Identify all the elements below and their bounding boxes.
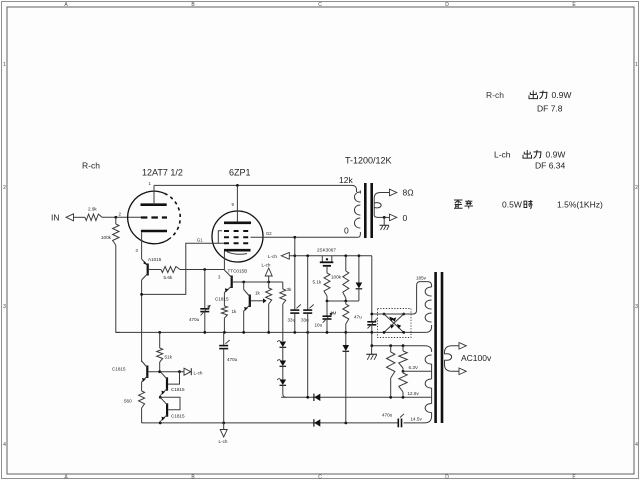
tube V1 cathode xyxy=(136,231,168,259)
resistor R4 1k xyxy=(221,306,237,332)
svg-text:5.6k: 5.6k xyxy=(164,275,173,280)
svg-text:C1815: C1815 xyxy=(215,297,229,302)
note: R-ch output spec text xyxy=(486,90,571,114)
tube V1 grid (dashed) xyxy=(141,216,167,218)
wire: pot wiper arrow to Q3 base xyxy=(251,298,267,303)
svg-text:100k: 100k xyxy=(331,275,342,280)
capacitor C6 470u (series in bottom rail) xyxy=(382,413,404,428)
node grid junction + pin 2 xyxy=(114,212,121,219)
svg-text:560: 560 xyxy=(124,399,132,404)
connector arrow 8 ohm tap xyxy=(381,188,414,198)
resistor R9 heater divider xyxy=(387,346,395,398)
node: 6ZP1 plate tap xyxy=(236,184,239,187)
transformer T1 label T-1200/12K xyxy=(345,156,392,166)
capacitor C2 10u (w/ arrow) xyxy=(315,301,333,332)
potentiometer VR1 1k xyxy=(255,288,272,332)
resistor R1 2.9k xyxy=(85,207,102,221)
transistor Q6 C1815 (diode strapped) xyxy=(160,372,185,398)
svg-text:1k: 1k xyxy=(232,309,238,314)
tube V2 g1/g3 bracket xyxy=(197,231,224,243)
svg-text:0.5W: 0.5W xyxy=(502,200,522,210)
svg-text:D: D xyxy=(445,2,449,8)
svg-text:0.9W: 0.9W xyxy=(552,90,572,100)
wire: Q5 base row xyxy=(148,370,184,373)
svg-text:TTC015B: TTC015B xyxy=(228,269,248,274)
capacitor C1 470u (electrolytic w/ arrow) xyxy=(189,270,211,333)
connector arrow AC neutral xyxy=(459,368,466,375)
wire: Q3 emitter down to rail xyxy=(243,311,245,332)
label 12k primary xyxy=(339,175,353,185)
tube V2 label 6ZP1 xyxy=(229,168,251,178)
label 185v winding xyxy=(416,276,427,281)
svg-text:6.3V: 6.3V xyxy=(409,365,419,370)
capacitor C7 470u L-ch supply xyxy=(219,332,237,423)
wire: source node joining 5.1k/100k/zener xyxy=(326,300,359,303)
svg-text:0.9W: 0.9W xyxy=(546,150,566,160)
transformer T2 core xyxy=(436,272,442,423)
transformer T1 primary winding xyxy=(354,191,360,229)
svg-text:0: 0 xyxy=(403,213,408,223)
node: g2 junction xyxy=(293,236,296,239)
svg-text:G2: G2 xyxy=(266,231,272,236)
wire: Q3 collector up to bias node xyxy=(243,282,245,290)
transformer T2 heater winding xyxy=(425,355,432,423)
svg-text:DF 7.8: DF 7.8 xyxy=(537,104,563,114)
wire: diode stack to 12.6v line xyxy=(283,385,286,397)
wire: Q2 base to bias node xyxy=(232,281,283,284)
wire: 5.6k to 6ZP1 cathode node xyxy=(180,268,224,271)
connector arrow L-ch (left, to g2 node wire) xyxy=(268,252,372,259)
wire: 12.6v tap / bias feed xyxy=(281,391,432,399)
svg-text:L-ch: L-ch xyxy=(219,439,228,444)
svg-text:C: C xyxy=(318,475,322,480)
svg-text:2.9k: 2.9k xyxy=(88,207,97,212)
note: R-ch channel label xyxy=(82,161,100,171)
svg-text:C: C xyxy=(318,2,322,8)
svg-text:0: 0 xyxy=(344,226,349,236)
svg-text:470u: 470u xyxy=(382,413,393,418)
svg-text:4: 4 xyxy=(3,442,6,448)
svg-text:D: D xyxy=(445,475,449,480)
wire: g2 to primary 0 tap xyxy=(251,231,361,237)
transformer T2 HV winding xyxy=(425,287,431,322)
label AC100v xyxy=(461,353,492,363)
wire: g1 lead down-left xyxy=(143,243,219,294)
resistor R5 3k xyxy=(280,282,292,304)
svg-text:4: 4 xyxy=(635,442,638,448)
resistor R13 560 xyxy=(124,382,145,423)
svg-text:3: 3 xyxy=(3,304,6,310)
note: L-ch output spec text xyxy=(494,150,566,171)
capacitor C3 47u xyxy=(354,256,378,333)
svg-text:T-1200/12K: T-1200/12K xyxy=(345,156,392,166)
svg-text:1k: 1k xyxy=(255,291,261,296)
resistor R3 5.6k xyxy=(161,267,180,281)
svg-text:3: 3 xyxy=(635,304,638,310)
svg-text:2: 2 xyxy=(3,185,6,191)
transistor Q7 C1815 (diode strapped) xyxy=(159,396,185,423)
svg-text:A1015: A1015 xyxy=(148,257,162,262)
svg-text:2SK3067: 2SK3067 xyxy=(317,248,336,253)
svg-text:12AT7 1/2: 12AT7 1/2 xyxy=(142,168,183,178)
resistor R8 1M xyxy=(330,301,349,332)
wire: bottom rail 14.5v xyxy=(142,422,425,425)
transformer T2 AC primary winding xyxy=(445,346,460,372)
tube V2 grids (3 dashed rows) xyxy=(224,231,251,243)
svg-text:3k: 3k xyxy=(287,287,293,292)
ground: speaker common chassis xyxy=(380,217,390,230)
label 0 primary bottom xyxy=(344,226,349,236)
svg-text:IN: IN xyxy=(51,213,60,223)
wire: 6.3V tap xyxy=(402,365,432,373)
svg-text:C1815: C1815 xyxy=(171,414,185,419)
transformer T1 core xyxy=(365,183,371,238)
wire: main ground rail xyxy=(116,325,432,332)
diode D1 zener xyxy=(356,256,363,301)
svg-text:1M: 1M xyxy=(330,311,337,316)
resistor R11 heater divider lower xyxy=(399,373,407,397)
svg-text:47u: 47u xyxy=(354,315,362,320)
transistor Q3 C1815 (NPN, mirrored, base to pot wiper) xyxy=(215,290,250,312)
tube V2 cathode + beam plate xyxy=(218,250,251,279)
resistor R6 5.1k xyxy=(313,273,331,301)
svg-text:33u: 33u xyxy=(301,318,309,323)
svg-text:R-ch: R-ch xyxy=(82,161,100,171)
svg-text:DF 6.34: DF 6.34 xyxy=(535,161,566,171)
note: distortion spec text xyxy=(454,200,603,210)
svg-text:12k: 12k xyxy=(339,175,353,185)
bridge rectifier BR1 (dotted outline) xyxy=(378,309,412,338)
resistor R2 100k xyxy=(101,217,119,245)
resistor R10 heater divider upper xyxy=(399,346,407,373)
svg-text:10u: 10u xyxy=(315,323,323,328)
svg-text:470u: 470u xyxy=(189,317,200,322)
svg-text:8Ω: 8Ω xyxy=(403,188,414,198)
svg-text:470u: 470u xyxy=(227,357,238,362)
svg-text:5.1k: 5.1k xyxy=(313,280,322,285)
svg-text:L-ch: L-ch xyxy=(494,150,511,160)
svg-text:12.6v: 12.6v xyxy=(408,391,420,396)
svg-text:6ZP1: 6ZP1 xyxy=(229,168,251,178)
wire: IN to R1 xyxy=(74,216,86,218)
resistor R12 51k xyxy=(157,332,173,371)
svg-text:33u: 33u xyxy=(288,318,296,323)
capacitor C4 33u xyxy=(288,237,301,332)
tube V1 12AT7 triode envelope xyxy=(128,191,181,244)
svg-text:1.5%(1KHz): 1.5%(1KHz) xyxy=(557,200,603,210)
node IN input xyxy=(51,213,74,223)
svg-text:185v: 185v xyxy=(416,276,427,281)
resistor R7 100k xyxy=(331,256,349,301)
svg-text:14.5v: 14.5v xyxy=(411,417,423,422)
svg-text:C1815: C1815 xyxy=(112,367,126,372)
svg-text:AC100v: AC100v xyxy=(461,353,492,363)
label 14.5v xyxy=(411,417,423,422)
svg-text:1: 1 xyxy=(3,62,6,68)
capacitor C5 33u xyxy=(301,256,314,397)
tube V2 6ZP1 envelope xyxy=(212,211,263,262)
wire: heater rail from 47u node xyxy=(370,332,431,352)
svg-text:51k: 51k xyxy=(165,355,173,360)
svg-text:1: 1 xyxy=(635,62,638,68)
wire: Q1 base lead xyxy=(149,269,161,271)
wire: R1 to grid node xyxy=(102,216,141,218)
connector arrow L-ch (down) xyxy=(219,423,228,444)
transformer T1 secondary winding xyxy=(374,193,381,218)
wire: Q2 emitter to R4 xyxy=(223,293,225,307)
wire: bridge + output to HV winding top xyxy=(370,282,431,316)
svg-text:C1815: C1815 xyxy=(171,387,185,392)
diode D6 bias xyxy=(277,341,286,386)
diode D10 to L-ch xyxy=(184,368,203,375)
node: dots on L-ch sense wire xyxy=(293,254,360,257)
wire: 3k down to bias diodes (crosses rail) xyxy=(282,304,284,341)
diode D9 zener between rails xyxy=(343,332,350,423)
svg-text:G1: G1 xyxy=(197,238,203,243)
svg-text:L-ch: L-ch xyxy=(268,254,277,259)
ground: chassis at heater rail xyxy=(366,346,377,360)
connector arrow 0 tap xyxy=(378,213,408,223)
svg-text:L-ch: L-ch xyxy=(194,371,203,376)
wire: Q1 collector down xyxy=(140,280,143,362)
diode D7 on 12.6v feed xyxy=(314,394,320,401)
tube V2 plate + lead xyxy=(224,185,251,222)
tube V1 label 12AT7 1/2 xyxy=(142,168,183,178)
svg-text:2: 2 xyxy=(635,185,638,191)
svg-text:L-ch: L-ch xyxy=(262,263,271,268)
diode D8 on bottom rail xyxy=(314,419,320,426)
transistor Q1 A1015 (PNP) xyxy=(142,257,162,280)
transistor Q2 TTC015B (NPN, mirrored) xyxy=(224,269,247,293)
bridge diodes D2-D5 xyxy=(383,313,406,334)
connector arrow AC hot xyxy=(459,343,466,350)
wire: 100k down to ground rail corner xyxy=(116,245,120,332)
svg-text:R-ch: R-ch xyxy=(486,90,504,100)
connector arrow L-ch (up, to volume pot) xyxy=(262,263,273,289)
wire: plate rail to output transformer xyxy=(154,185,357,192)
transistor Q5 C1815 xyxy=(112,361,147,382)
tube V1 plate xyxy=(141,181,167,205)
transistor Q4 2SK3067 JFET xyxy=(317,248,336,274)
node: rail junction dots xyxy=(158,331,373,334)
svg-text:100k: 100k xyxy=(101,235,112,240)
